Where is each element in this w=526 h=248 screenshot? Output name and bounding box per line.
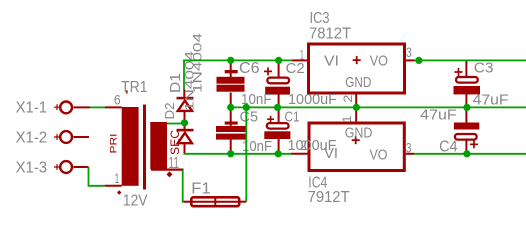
svg-text:1: 1 <box>115 170 120 186</box>
svg-text:C6: C6 <box>239 60 260 77</box>
svg-text:47uF: 47uF <box>420 107 457 124</box>
junction C2 top <box>275 57 282 64</box>
capacitor C1 (polarized) <box>264 108 290 154</box>
transformer TR1 secondary origin marker <box>167 171 173 177</box>
regulator IC4 7912T <box>291 107 414 170</box>
junction C6 top <box>227 57 234 64</box>
svg-text:GND: GND <box>345 124 373 141</box>
svg-text:C3: C3 <box>474 59 494 76</box>
wire fuse to ground rail <box>245 107 247 201</box>
wire bottom rail right <box>414 153 526 155</box>
diode D2 <box>177 129 194 155</box>
capacitor C2 (polarized) <box>264 61 290 108</box>
wire secondary to diode junction <box>167 123 183 125</box>
svg-text:X1-1: X1-1 <box>16 100 48 117</box>
transformer TR1 name tick <box>126 90 127 93</box>
svg-text:D1: D1 <box>167 73 184 93</box>
transformer TR1 pin 6 lead <box>105 106 122 108</box>
wire ground rail <box>231 106 526 108</box>
fuse F1 <box>184 196 247 208</box>
svg-text:C1: C1 <box>285 108 300 125</box>
junction C1 bottom <box>275 150 282 157</box>
svg-text:1: 1 <box>340 115 354 122</box>
svg-text:1000uF: 1000uF <box>288 91 337 108</box>
transformer TR1 core <box>143 105 146 190</box>
junction C4 bottom <box>463 150 470 157</box>
svg-text:3: 3 <box>406 139 412 155</box>
capacitor C5 <box>216 108 247 154</box>
svg-text:2: 2 <box>341 94 355 102</box>
regulator IC3 7812T <box>292 44 415 108</box>
wire top rail left <box>183 59 292 61</box>
wire rectifier drop <box>183 60 185 90</box>
svg-text:12V: 12V <box>123 192 148 209</box>
svg-text:11: 11 <box>169 155 180 172</box>
svg-text:6: 6 <box>114 92 121 108</box>
svg-text:D2: D2 <box>162 103 177 120</box>
svg-text:C2: C2 <box>286 60 305 77</box>
wire top rail right <box>415 59 526 61</box>
transformer TR1 secondary winding <box>150 122 167 169</box>
junction IC GND pins <box>353 104 360 111</box>
svg-text:X1-3: X1-3 <box>16 160 48 177</box>
svg-text:VO: VO <box>370 146 388 163</box>
svg-text:PRI: PRI <box>109 134 120 154</box>
connector X1-1 <box>54 102 90 114</box>
junction C3 ground <box>463 104 470 111</box>
transformer TR1 pin 11 lead <box>151 169 184 171</box>
svg-text:7812T: 7812T <box>309 26 351 43</box>
transformer TR1 primary winding <box>122 107 139 186</box>
junction fuse wire ground <box>243 104 250 111</box>
junction C2-C1 ground <box>274 104 281 111</box>
connector X1-2 <box>54 131 89 143</box>
transformer TR1 origin marker <box>117 190 121 194</box>
svg-text:1N4004: 1N4004 <box>193 32 205 93</box>
svg-text:TR1: TR1 <box>121 79 148 96</box>
connector X1-3 <box>54 161 89 173</box>
junction IC3 output <box>415 57 422 64</box>
svg-text:C4: C4 <box>439 138 458 155</box>
svg-text:VI: VI <box>324 53 339 70</box>
junction diode center tap <box>181 119 188 126</box>
svg-text:7912T: 7912T <box>308 189 350 206</box>
svg-text:X1-2: X1-2 <box>16 130 48 147</box>
svg-text:1: 1 <box>300 46 304 62</box>
capacitor C3 (polarized) <box>454 61 481 108</box>
junction C5 bottom <box>227 150 234 157</box>
svg-text:VI: VI <box>324 145 338 162</box>
diode D1 <box>177 89 194 129</box>
svg-text:F1: F1 <box>191 181 211 198</box>
wire pin 11 to fuse <box>183 170 184 201</box>
svg-text:3: 3 <box>406 44 412 60</box>
capacitor C6 <box>217 61 245 108</box>
svg-text:47uF: 47uF <box>473 91 509 108</box>
wire X1-3 to transformer <box>89 167 105 186</box>
wire X1-1 to transformer <box>90 106 105 108</box>
svg-text:C5: C5 <box>240 108 259 125</box>
svg-text:2: 2 <box>301 137 307 153</box>
junction C6-C5 ground <box>227 104 234 111</box>
transformer TR1 pin 1 lead <box>105 185 122 187</box>
svg-text:VO: VO <box>370 53 388 70</box>
svg-text:SEC: SEC <box>170 130 182 155</box>
capacitor C4 (polarized, flipped) <box>454 108 479 154</box>
wire bottom rail left <box>184 153 292 155</box>
svg-text:GND: GND <box>345 74 371 91</box>
